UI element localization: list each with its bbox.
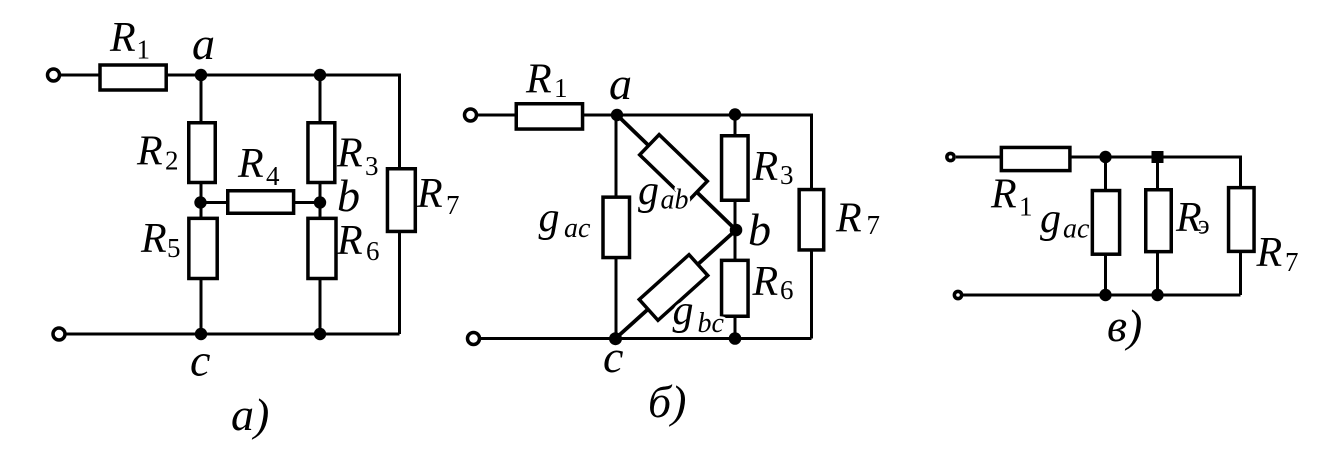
svg-text:R: R [752, 144, 779, 190]
svg-text:5: 5 [167, 233, 181, 263]
svg-text:6: 6 [780, 275, 794, 305]
svg-text:1: 1 [1019, 192, 1033, 222]
svg-text:э: э [1198, 210, 1210, 240]
svg-text:R: R [525, 57, 552, 103]
svg-text:R: R [109, 15, 136, 61]
svg-text:3: 3 [780, 160, 794, 190]
svg-text:1: 1 [554, 73, 568, 103]
svg-text:7: 7 [446, 190, 460, 220]
svg-text:R: R [336, 218, 363, 264]
svg-text:b: b [337, 170, 360, 221]
svg-text:7: 7 [867, 210, 881, 240]
svg-text:R: R [752, 259, 779, 305]
svg-text:R: R [140, 216, 167, 262]
svg-text:g: g [539, 195, 560, 241]
svg-text:a: a [609, 58, 632, 109]
svg-text:R: R [1256, 230, 1283, 276]
svg-text:b: b [748, 204, 771, 255]
svg-text:R: R [136, 129, 163, 175]
svg-text:а): а) [231, 389, 269, 440]
svg-text:3: 3 [365, 151, 379, 181]
svg-text:R: R [416, 171, 443, 217]
svg-text:ac: ac [1063, 214, 1090, 245]
svg-text:a: a [192, 18, 215, 69]
svg-text:R: R [835, 196, 862, 242]
svg-text:c: c [603, 331, 623, 382]
svg-text:7: 7 [1285, 247, 1299, 277]
svg-text:ab: ab [661, 185, 689, 216]
svg-text:4: 4 [266, 161, 280, 191]
svg-text:g: g [1040, 196, 1061, 242]
svg-text:g: g [673, 288, 694, 334]
svg-text:1: 1 [137, 35, 151, 65]
svg-text:c: c [190, 335, 210, 386]
svg-text:б): б) [648, 376, 686, 427]
svg-text:в): в) [1107, 300, 1142, 351]
svg-text:g: g [638, 168, 659, 214]
svg-text:bc: bc [698, 308, 725, 339]
svg-text:2: 2 [165, 146, 179, 176]
svg-text:6: 6 [366, 236, 380, 266]
svg-text:R: R [237, 141, 264, 187]
svg-text:R: R [990, 172, 1017, 218]
svg-text:ac: ac [564, 213, 591, 244]
